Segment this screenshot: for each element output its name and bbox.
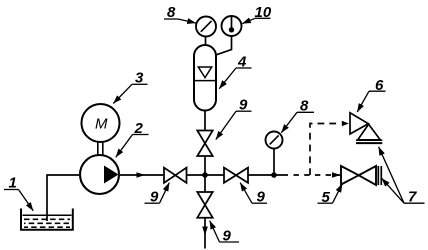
- liquid hatching row 2: [24, 222, 70, 224]
- arrow into charging valve 6: [342, 121, 349, 126]
- charging valve 6 lower triangle: [358, 124, 380, 140]
- drain flow arrow: [202, 227, 208, 236]
- valve V2 (right, 9): [224, 168, 236, 183]
- wire valve to gauge node: [248, 174, 288, 176]
- tank T walls: [21, 209, 73, 230]
- drain wire: [204, 218, 206, 249]
- charging valve 6 triangle: [350, 113, 368, 134]
- liquid hatching row 1: [24, 218, 70, 220]
- svg-text:8: 8: [167, 4, 176, 21]
- wire valve to junction: [204, 156, 206, 175]
- pump P circle: [80, 155, 119, 194]
- cap plug on valve 5: [377, 166, 379, 185]
- thermometer TI (10): [222, 16, 242, 36]
- valve V1 (left, 9): [164, 168, 175, 183]
- wire junction to drain valve: [204, 175, 206, 192]
- node gauge tee: [271, 172, 277, 178]
- wire accumulator to valve: [204, 110, 206, 131]
- gauge PG1 (8): [196, 17, 216, 37]
- accumulator stem top wire: [205, 36, 207, 47]
- pump flow triangle: [104, 166, 119, 184]
- gauge PG2 stem: [273, 148, 275, 175]
- valve V5 (drain, 9): [197, 192, 212, 205]
- liquid surface: [23, 214, 72, 216]
- wire to junction: [187, 174, 225, 176]
- node junction center: [202, 172, 208, 178]
- valve V3 (5): [341, 166, 359, 185]
- gauge PG2 (8): [266, 132, 283, 149]
- shaft coupling: [97, 142, 99, 156]
- accumulator separator line: [194, 80, 216, 82]
- motor M circle: [82, 104, 120, 142]
- dashed main wire: [294, 174, 341, 176]
- accumulator gas triangle: [198, 67, 211, 78]
- accumulator A (4) body: [194, 45, 216, 111]
- thermometer TI (10) wire: [215, 36, 232, 55]
- valve V4 (top vertical, 9): [197, 131, 212, 144]
- discharge wire: [119, 174, 164, 176]
- svg-text:M: M: [95, 116, 108, 133]
- cap plug under valve 6: [356, 139, 382, 141]
- liquid hatching row 3: [24, 226, 70, 228]
- svg-text:1: 1: [9, 174, 17, 191]
- arrow into valve 5: [332, 172, 341, 178]
- suction pipe wire: [47, 175, 81, 221]
- dashed branch wire: [310, 124, 339, 176]
- flow arrow: [137, 172, 146, 178]
